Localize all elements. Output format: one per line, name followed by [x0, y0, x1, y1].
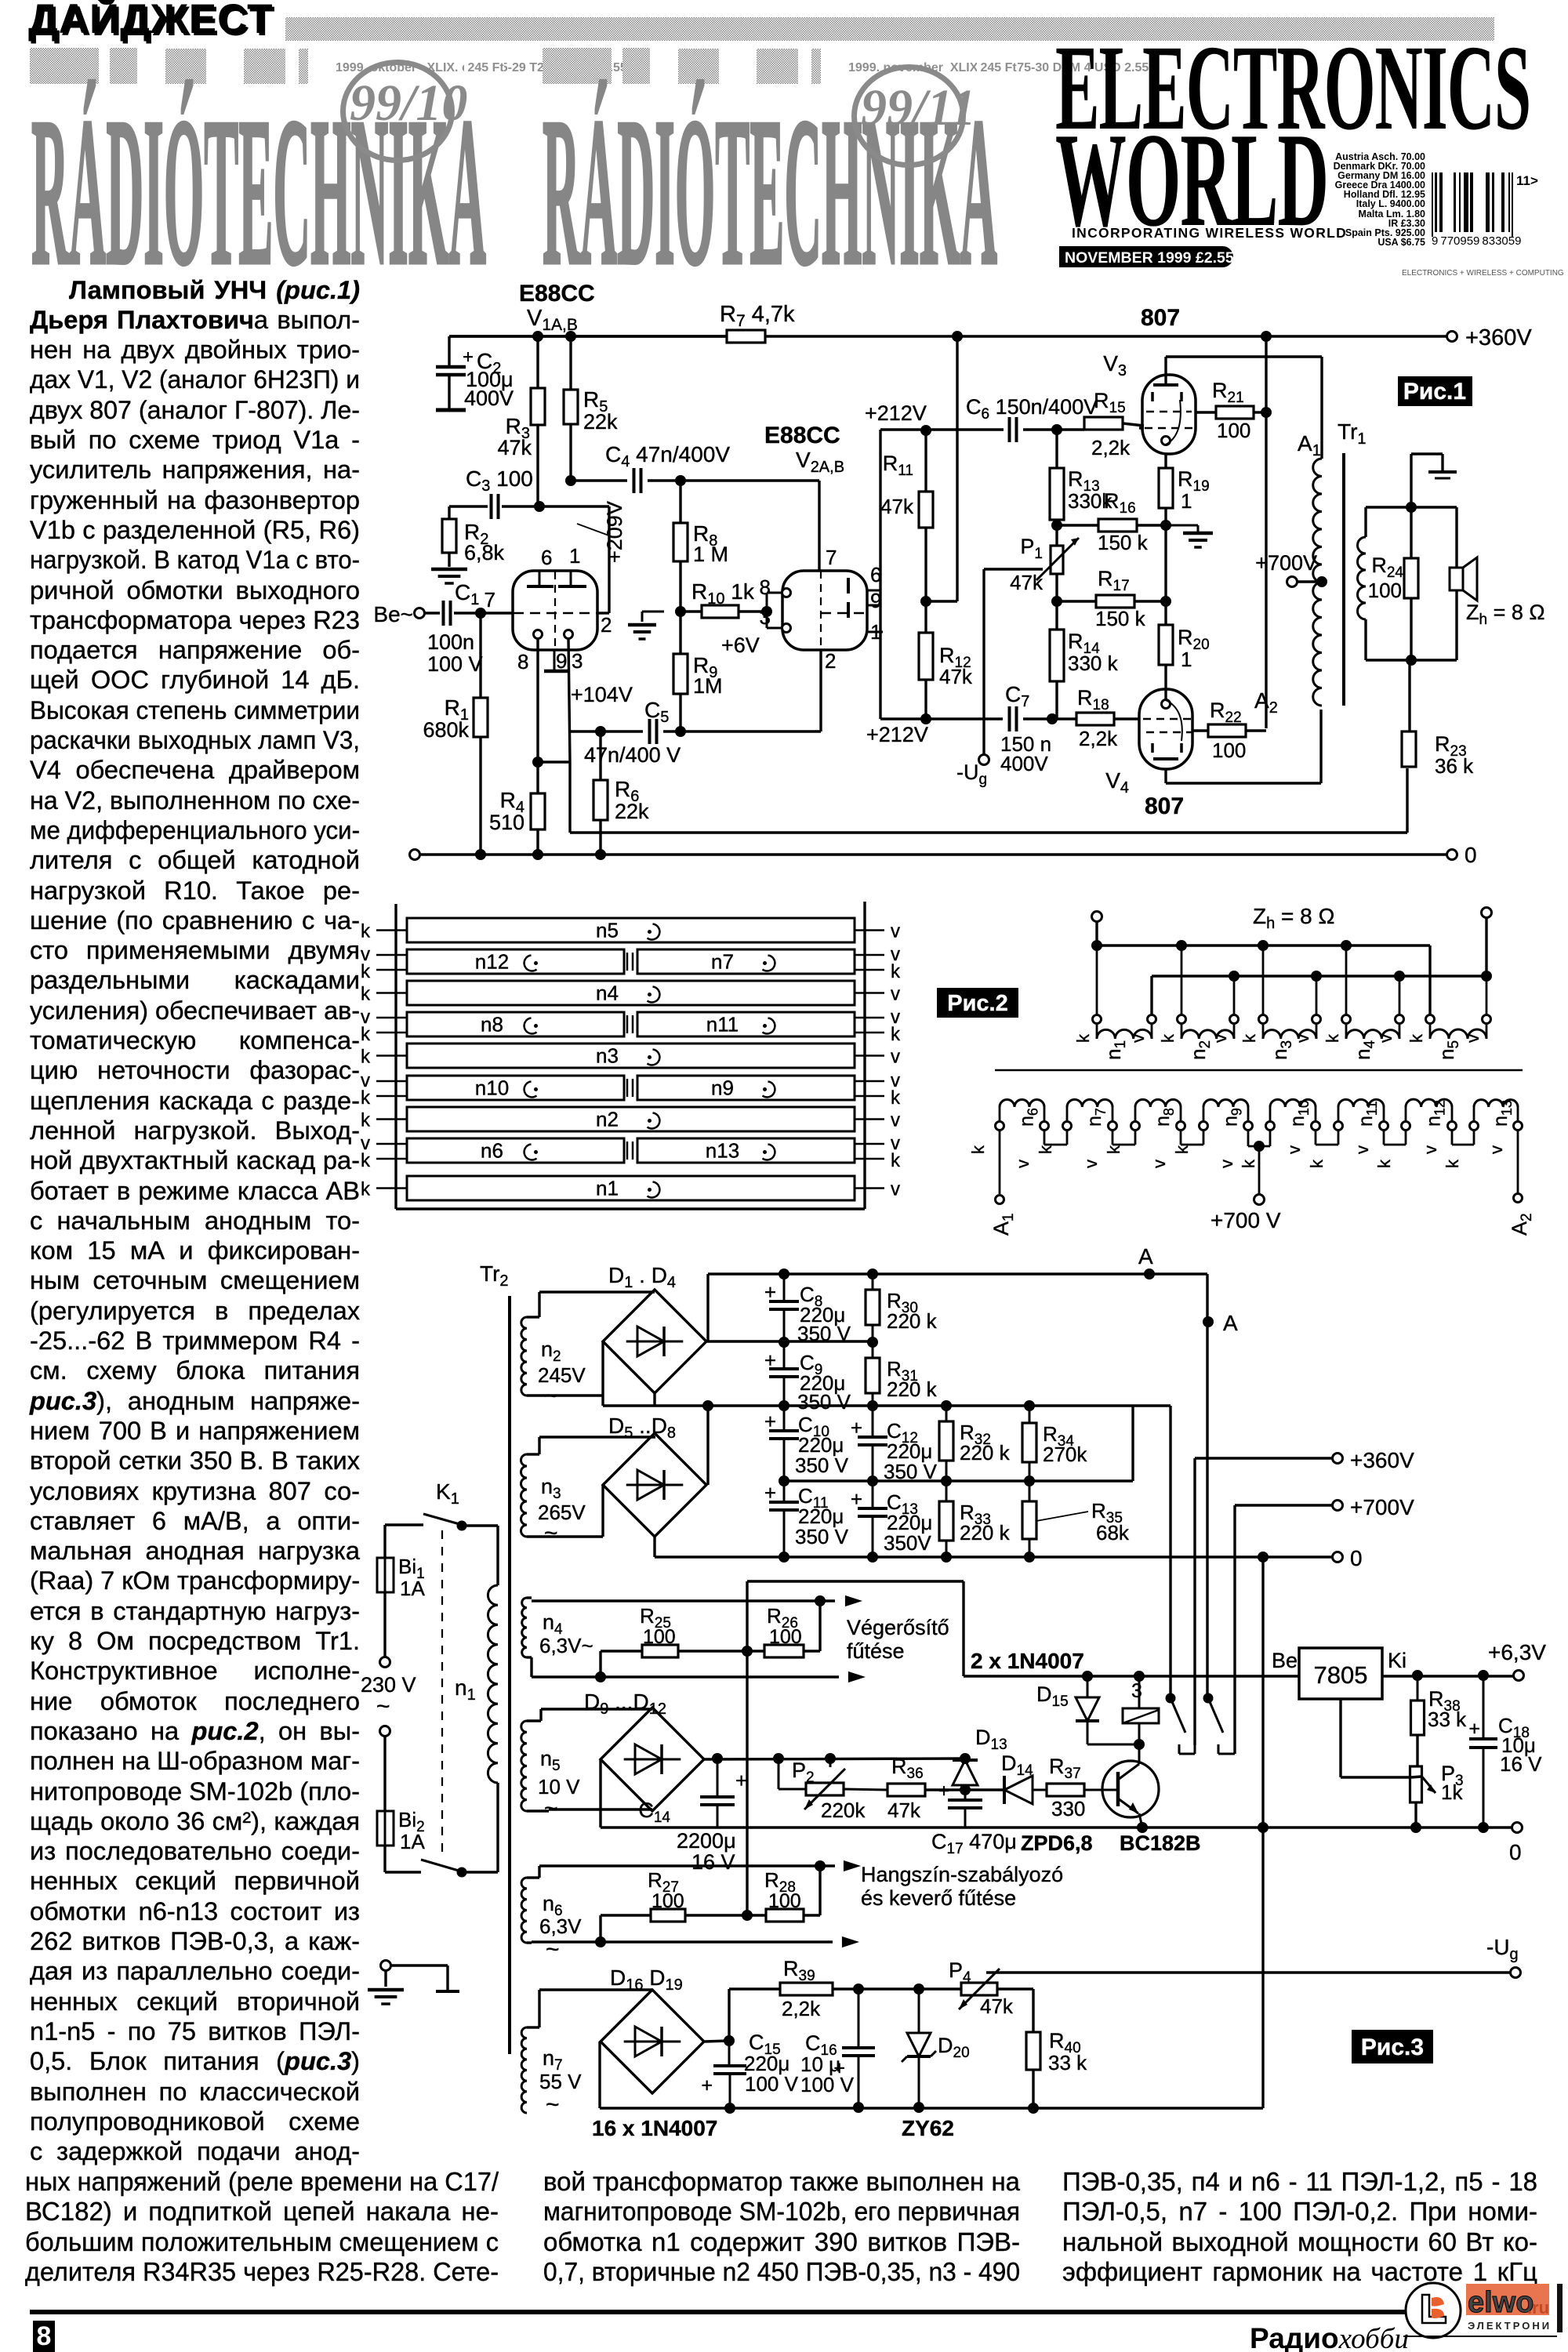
- ground R2: [431, 569, 467, 583]
- svg-text:1M: 1M: [693, 674, 723, 698]
- svg-text:R15: R15: [1094, 389, 1126, 416]
- resistor R34: [1022, 1406, 1087, 1481]
- svg-text:D15: D15: [1036, 1682, 1069, 1710]
- IC 7805: [1299, 1648, 1382, 1699]
- svg-text:V2A,B: V2A,B: [796, 448, 844, 476]
- capacitor C8: [764, 1274, 851, 1345]
- stub right bot row3: [855, 1032, 884, 1034]
- stub right n5: [855, 929, 884, 931]
- resistor R26: [764, 1604, 804, 1657]
- link n12-n13: [1452, 1131, 1474, 1145]
- resistor R21: [1212, 379, 1254, 442]
- winding n13 label: [1490, 1100, 1515, 1127]
- wire v4 down: [1399, 976, 1401, 1014]
- wire C7 right: [1023, 717, 1076, 720]
- mid rail capacitors: [784, 1479, 1133, 1482]
- label 2x1N4007: [971, 1649, 1084, 1673]
- winding n5 labels: [1406, 1033, 1483, 1060]
- svg-text:3: 3: [572, 649, 583, 673]
- terminal +700V fig1: [1255, 551, 1317, 587]
- riser mid to rail360: [1131, 1406, 1134, 1481]
- node R3 C3: [534, 501, 545, 512]
- wire V1 pin8 down: [536, 638, 539, 793]
- node R8 R10: [675, 606, 686, 617]
- svg-text:E88CC: E88CC: [519, 281, 595, 307]
- wire R6 bottom: [599, 820, 601, 855]
- winding n8 label: [481, 1013, 538, 1036]
- svg-text:~: ~: [546, 2092, 560, 2118]
- svg-text:100 V: 100 V: [800, 2073, 855, 2096]
- svg-text:350 V: 350 V: [797, 1322, 851, 1345]
- label +209V: [577, 501, 626, 563]
- svg-text:+: +: [735, 1769, 747, 1792]
- node R16 R19: [1160, 520, 1171, 531]
- winding n11 label: [706, 1013, 775, 1036]
- svg-text:n11: n11: [1355, 1101, 1380, 1127]
- letter right 4: [891, 1047, 900, 1068]
- svg-text:2: 2: [601, 613, 612, 637]
- link n6-n7: [1044, 1131, 1067, 1145]
- winding section n8 box: [407, 1012, 624, 1036]
- node C10 C11: [779, 1475, 789, 1486]
- label Tr1: [1338, 419, 1367, 448]
- resistor R36: [844, 1755, 925, 1822]
- winding n11 label: [1355, 1101, 1380, 1127]
- svg-text:Be~: Be~: [373, 602, 413, 626]
- bus v windings: [1152, 918, 1486, 1014]
- node D13 bottom: [960, 1784, 971, 1795]
- svg-text:v: v: [891, 921, 900, 942]
- node C16 bottom: [853, 2102, 864, 2113]
- winding n2 posts: [1178, 1015, 1239, 1024]
- capacitor C13: [851, 1481, 933, 1557]
- svg-text:n3: n3: [541, 1475, 561, 1502]
- resistor R11: [880, 452, 933, 528]
- label A2: [1254, 688, 1278, 717]
- winding n4 labels: [1323, 1033, 1396, 1060]
- wire R27 right: [685, 1914, 766, 1916]
- svg-text:100: 100: [652, 1890, 684, 1912]
- terminal 0 right: [1447, 843, 1477, 867]
- svg-text:350 V: 350 V: [795, 1525, 849, 1548]
- svg-text:100: 100: [1368, 579, 1402, 602]
- capacitor C2: [436, 347, 514, 410]
- svg-text:k: k: [1172, 1145, 1192, 1154]
- wire rail 360: [603, 1404, 1171, 1406]
- svg-text:v: v: [1376, 1034, 1396, 1043]
- link n7-n8: [1112, 1131, 1135, 1145]
- winding n5 label: [596, 919, 659, 942]
- label Zh fig1: [1466, 601, 1545, 628]
- winding n9 coil: [1200, 1100, 1253, 1131]
- svg-text:k: k: [891, 1087, 901, 1109]
- letter right 0: [891, 921, 900, 942]
- wire C5 line: [570, 730, 643, 732]
- winding n13 coil: [1470, 1100, 1523, 1131]
- svg-text:C1: C1: [455, 580, 479, 608]
- winding section n10 box: [407, 1076, 624, 1100]
- svg-text:k: k: [361, 1179, 371, 1200]
- svg-text:C5: C5: [644, 698, 669, 726]
- wire bridge1 mid rail: [706, 1340, 873, 1342]
- label +104V: [571, 683, 633, 706]
- svg-text:+700V: +700V: [1350, 1495, 1414, 1519]
- svg-text:n5: n5: [596, 919, 619, 942]
- resistor R16: [1098, 489, 1149, 554]
- ground R19: [1166, 525, 1213, 547]
- svg-text:1A: 1A: [400, 1577, 425, 1600]
- svg-text:220 k: 220 k: [887, 1377, 938, 1401]
- svg-text:ZPD6,8: ZPD6,8: [1021, 1831, 1093, 1855]
- resistor R22: [1208, 699, 1246, 762]
- wire C2 branch: [448, 336, 450, 408]
- node heater2: [815, 1860, 826, 1871]
- winding n4 posts: [1342, 1015, 1404, 1024]
- svg-text:v: v: [1486, 1145, 1506, 1154]
- wire v3 down: [1316, 976, 1318, 1014]
- svg-text:1: 1: [1181, 489, 1192, 513]
- winding n12 label: [1423, 1100, 1448, 1127]
- svg-text:C6 150n/400V: C6 150n/400V: [966, 395, 1098, 423]
- winding n2 coil: [1181, 1024, 1234, 1039]
- node +700V tap: [1316, 576, 1327, 587]
- winding n13 letters: [1443, 1145, 1506, 1168]
- svg-text:0: 0: [1350, 1546, 1363, 1570]
- node R11 top: [920, 425, 931, 436]
- winding n5: [521, 1721, 580, 1821]
- ground R10: [628, 612, 664, 639]
- svg-text:elwo: elwo: [1468, 2286, 1534, 2319]
- svg-text:47k: 47k: [1010, 571, 1044, 594]
- capacitor C3: [492, 494, 499, 519]
- resistor R39: [780, 1957, 833, 2020]
- wire n5 top: [527, 1709, 652, 1721]
- svg-text:150 k: 150 k: [1098, 531, 1149, 554]
- node C18 bottom: [1478, 1822, 1489, 1833]
- winding n6 coil: [996, 1100, 1049, 1131]
- resistor R28: [764, 1868, 804, 1922]
- svg-text:0: 0: [1465, 843, 1477, 867]
- svg-text:Kі: Kі: [1388, 1649, 1406, 1672]
- relay contact 1: [1166, 1693, 1196, 1755]
- svg-text:C17 470μ: C17 470μ: [931, 1830, 1017, 1857]
- svg-text:Hangszín-szabályozó: Hangszín-szabályozó: [861, 1863, 1063, 1886]
- node bus2 x1679: [1311, 971, 1322, 982]
- winding n2 label: [596, 1108, 659, 1131]
- label C3 100: [466, 466, 533, 495]
- svg-text:n11: n11: [706, 1013, 739, 1036]
- ground earth symbol: [368, 1990, 404, 2004]
- stub left bot row1: [376, 969, 407, 971]
- winding n1 label: [596, 1177, 659, 1200]
- svg-text:47k: 47k: [939, 665, 973, 688]
- capacitor C15: [701, 2031, 798, 2108]
- resistor R20: [1159, 625, 1210, 671]
- left column text: [30, 275, 360, 305]
- wire n2 top: [527, 1292, 655, 1317]
- svg-text:V3: V3: [1103, 351, 1127, 379]
- node C7 R14: [1047, 713, 1058, 724]
- svg-text:+360V: +360V: [1465, 325, 1532, 350]
- svg-text:D20: D20: [938, 2034, 970, 2061]
- svg-text:+6,3V: +6,3V: [1488, 1640, 1546, 1664]
- svg-text:+: +: [764, 1280, 776, 1304]
- terminal -Ug fig1: [956, 755, 989, 789]
- resistor R24: [1368, 554, 1418, 602]
- winding n9 label: [711, 1076, 775, 1100]
- resistor R19: [1159, 467, 1210, 513]
- svg-text:9: 9: [556, 649, 567, 673]
- diode D13: [953, 1726, 1007, 1785]
- svg-text:k: k: [1240, 1033, 1259, 1043]
- svg-text:v: v: [891, 1179, 900, 1200]
- wire v2 down: [1233, 976, 1236, 1014]
- stub left top row7: [376, 1143, 407, 1145]
- capacitor C14: [638, 1759, 747, 1874]
- svg-text:16 V: 16 V: [1500, 1752, 1542, 1776]
- winding n1 posts: [1093, 1015, 1156, 1024]
- resistor R4: [489, 788, 545, 834]
- speaker: [1450, 557, 1477, 601]
- wire V3 cathode: [1164, 454, 1167, 468]
- wire n3 bottom: [527, 1535, 603, 1537]
- bottom text columns: [25, 2167, 492, 2197]
- svg-text:33 k: 33 k: [1048, 2051, 1087, 2074]
- node C9 bottom: [779, 1400, 789, 1411]
- stub right top row1: [855, 954, 884, 956]
- wire R27 left: [601, 1915, 651, 1942]
- stub V2 pin1: [867, 631, 883, 633]
- svg-text:n9: n9: [1220, 1108, 1245, 1127]
- node D15 top: [1082, 1671, 1093, 1682]
- terminal sec right: [1482, 908, 1492, 918]
- wire R12 bottom: [924, 680, 927, 719]
- resistor R31: [866, 1342, 938, 1406]
- svg-text:k: k: [361, 984, 371, 1005]
- wire R6 top: [599, 731, 601, 780]
- node heater1 bottom: [595, 1671, 606, 1682]
- wire V3 anode: [1166, 357, 1322, 459]
- svg-text:v: v: [1217, 1160, 1236, 1168]
- node bus1 x1611: [1258, 940, 1269, 951]
- resistor R38: [1411, 1675, 1468, 1735]
- node heater2 bottom: [595, 1936, 606, 1947]
- svg-text:220 k: 220 k: [887, 1309, 938, 1333]
- winding n6 letters: [968, 1145, 1033, 1168]
- svg-text:8: 8: [517, 650, 528, 673]
- winding n4 label: [596, 982, 659, 1005]
- svg-text:k: k: [1307, 1159, 1327, 1168]
- resistor R5: [564, 387, 618, 434]
- wire R5 to C4 node: [569, 424, 572, 481]
- label 16x1N4007: [592, 2116, 717, 2140]
- frame bottom: [396, 1207, 865, 1210]
- capacitor C6: [966, 395, 1098, 442]
- svg-text:100: 100: [769, 1626, 802, 1648]
- wire k1 down: [1096, 946, 1098, 1014]
- svg-text:v: v: [1210, 1034, 1230, 1043]
- wire speaker top: [1455, 507, 1457, 568]
- wire R28 link: [746, 1651, 748, 1915]
- potentiometer P2: [779, 1759, 866, 1822]
- node D20 top: [913, 1984, 924, 1994]
- node R32 top: [941, 1400, 952, 1411]
- svg-text:68k: 68k: [1096, 1521, 1130, 1544]
- letter left 6: [361, 1110, 371, 1131]
- node C8 C9: [779, 1337, 789, 1348]
- svg-text:R17: R17: [1098, 567, 1130, 594]
- winding n10 label: [475, 1076, 538, 1100]
- svg-text:100: 100: [643, 1626, 676, 1648]
- wire sec bottom: [1366, 619, 1457, 660]
- node C13 bottom: [867, 1552, 878, 1563]
- terminal +360V: [1447, 325, 1533, 350]
- svg-text:16 x 1N4007: 16 x 1N4007: [592, 2116, 717, 2140]
- svg-text:k: k: [1104, 1145, 1123, 1154]
- label C1 value: [427, 630, 483, 676]
- winding n3 posts: [1259, 1015, 1321, 1024]
- wire V3 grid: [1139, 426, 1144, 429]
- terminal +360V psu: [1333, 1448, 1415, 1472]
- link n11-n12: [1384, 1131, 1406, 1145]
- wire R16 right: [1137, 524, 1166, 526]
- wire R22 left: [1192, 729, 1208, 731]
- wire 1N4007 line: [964, 1675, 1299, 1677]
- relay contact 2: [1203, 1693, 1236, 1755]
- svg-text:+: +: [851, 1487, 862, 1511]
- node R31 bottom: [867, 1400, 878, 1411]
- wire k4 down: [1345, 946, 1348, 1014]
- svg-text:n10: n10: [1287, 1100, 1312, 1127]
- wire P3 bottom: [1414, 1802, 1417, 1828]
- svg-text:k: k: [361, 1087, 371, 1109]
- wire R9 top: [679, 612, 681, 654]
- wire zero rail: [420, 853, 1449, 855]
- bus k windings: [1097, 922, 1430, 1014]
- stub left bot row7: [376, 1158, 407, 1160]
- label Be~: [373, 602, 413, 626]
- winding n10 label: [1287, 1100, 1312, 1127]
- svg-text:v: v: [1352, 1145, 1372, 1154]
- wire R13 bottom: [1055, 520, 1058, 534]
- resistor R37: [1033, 1755, 1085, 1820]
- stub right top row3: [855, 1017, 884, 1019]
- svg-text:R18: R18: [1077, 686, 1109, 713]
- pin label 8 V1: [517, 650, 528, 673]
- wire C3 right: [502, 505, 539, 507]
- wire heater2 top: [527, 1866, 835, 1878]
- label heater1: [847, 1616, 949, 1663]
- wire bridge1 bottom drop: [653, 1392, 655, 1406]
- svg-text:v: v: [1284, 1145, 1304, 1154]
- ground C2: [436, 408, 466, 412]
- svg-text:n2: n2: [541, 1338, 561, 1365]
- svg-text:n4: n4: [1351, 1040, 1378, 1060]
- resistor R27: [648, 1868, 685, 1922]
- wire feedback rail: [570, 768, 1407, 833]
- switch K1 pole2: [421, 1860, 498, 1878]
- terminal -Ug psu: [1486, 1935, 1521, 1978]
- wire long zero drop: [1261, 1557, 1264, 2108]
- svg-text:+700V: +700V: [1255, 551, 1317, 575]
- svg-text:+: +: [764, 1348, 776, 1372]
- wire 7805 adj: [1341, 1699, 1421, 1777]
- svg-text:D14: D14: [1001, 1751, 1033, 1779]
- wire heater1 top: [527, 1598, 835, 1601]
- svg-text:350V: 350V: [884, 1531, 931, 1555]
- wire bridge2 left drop: [601, 1485, 604, 1537]
- winding section n4 box: [407, 981, 855, 1005]
- svg-text:ЭЛЕКТРОНИ: ЭЛЕКТРОНИ: [1468, 2320, 1552, 2332]
- svg-text:n6: n6: [1016, 1108, 1041, 1127]
- terminal mains N: [380, 1726, 390, 1737]
- node R32 R33: [941, 1475, 952, 1486]
- svg-text:+360V: +360V: [1350, 1448, 1414, 1472]
- svg-text:A: A: [1223, 1311, 1238, 1335]
- node R17 R20: [1160, 596, 1171, 607]
- svg-text:2,2k: 2,2k: [782, 1997, 821, 2020]
- svg-text:BC182B: BC182B: [1120, 1831, 1201, 1855]
- wire +360V psu: [1195, 1457, 1333, 1459]
- svg-text:n2: n2: [596, 1108, 619, 1131]
- svg-text:+: +: [764, 1481, 776, 1504]
- svg-text:+: +: [764, 1410, 776, 1433]
- node bus1 x1717: [1341, 940, 1352, 951]
- diode D14: [1001, 1751, 1033, 1804]
- ground speaker: [1428, 472, 1457, 478]
- node A top: [1138, 1244, 1155, 1279]
- wire +700V psu: [1235, 1504, 1333, 1506]
- winding n3 labels: [1240, 1033, 1312, 1060]
- label A1: [1298, 431, 1321, 459]
- label 807 top: [1141, 305, 1180, 331]
- svg-text:55 V: 55 V: [539, 2070, 582, 2093]
- svg-text:2,2k: 2,2k: [1091, 436, 1131, 459]
- wire cathode join: [538, 760, 570, 763]
- winding n5 posts: [1426, 1015, 1491, 1024]
- mechanical link K1: [441, 1530, 443, 1857]
- terminal +700V psu: [1333, 1495, 1415, 1519]
- svg-text:400V: 400V: [1000, 752, 1048, 775]
- wire R21 right: [1254, 411, 1266, 413]
- svg-text:22k: 22k: [615, 800, 649, 823]
- node bus2 x1574: [1229, 971, 1240, 982]
- separator ticks row 1: [627, 953, 633, 971]
- wire P1 wiper line: [984, 569, 1043, 754]
- svg-text:v: v: [1013, 1160, 1033, 1168]
- svg-text:1: 1: [569, 544, 580, 568]
- svg-text:fűtése: fűtése: [847, 1639, 905, 1663]
- node R25 R26: [742, 1646, 753, 1657]
- stub left top row1: [376, 954, 407, 956]
- node C16 top: [853, 1984, 864, 1994]
- letter left 4: [361, 1047, 371, 1068]
- relay coil K1: [1123, 1676, 1159, 1744]
- node R40 bottom: [1028, 2103, 1039, 2114]
- wire R38 P3: [1416, 1735, 1418, 1766]
- wire R4 bottom: [536, 829, 539, 855]
- node R33 bottom: [941, 1552, 952, 1563]
- label Zh fig2: [1253, 904, 1334, 932]
- svg-text:K1: K1: [436, 1479, 459, 1508]
- wire k3 down: [1262, 946, 1265, 1014]
- node bus2 x1785: [1394, 971, 1405, 982]
- wire bridge4 out: [705, 2041, 729, 2042]
- pin label 3 V1: [572, 649, 583, 673]
- wire R21 left: [1196, 411, 1216, 413]
- svg-text:R24: R24: [1371, 554, 1403, 581]
- wire C5 right: [663, 650, 821, 731]
